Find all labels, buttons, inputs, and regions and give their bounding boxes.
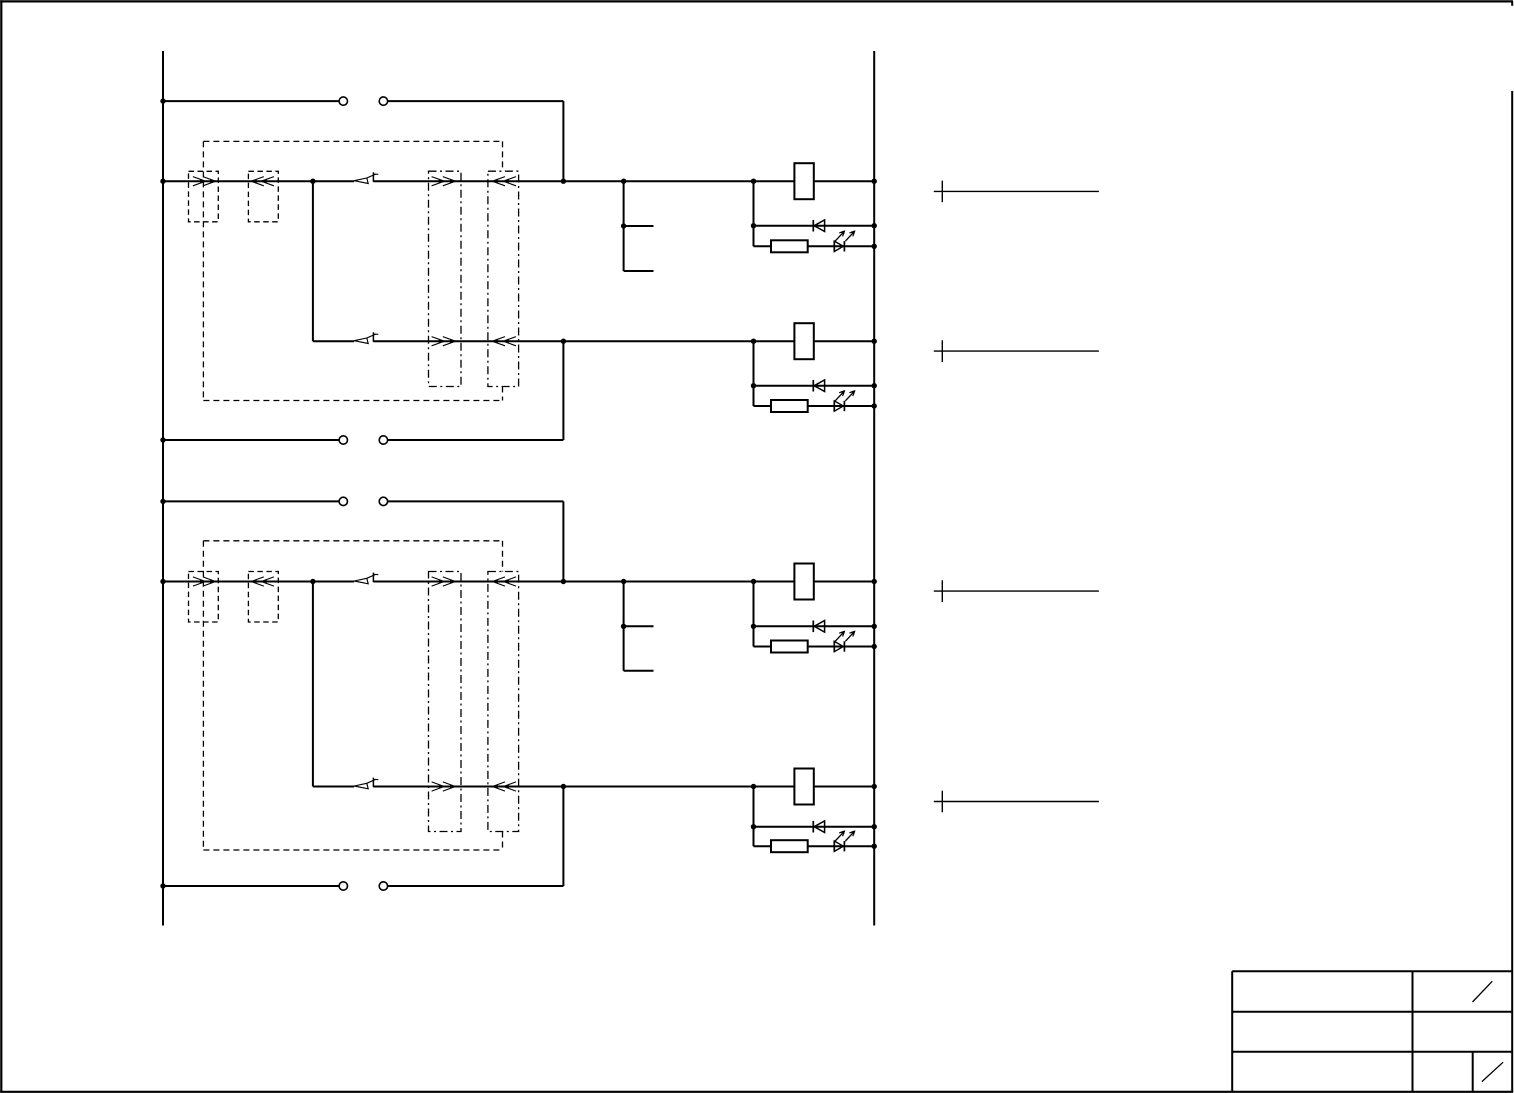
drawing frame border top-right tick bbox=[1511, 1, 1513, 5]
connector pin XP21 contacts bbox=[193, 577, 216, 586]
wire: section 2 second rung (left part) bbox=[313, 786, 354, 788]
wire: K11 branch vertical bbox=[753, 181, 755, 246]
pin contacts XT11 on main rung bbox=[432, 177, 456, 186]
wire: K22 branch vertical bbox=[753, 787, 755, 847]
relay coil K12 bbox=[794, 323, 813, 359]
node: main rung 1 stub junction bbox=[621, 179, 626, 184]
node: second rung 1 relay branch junction bbox=[751, 339, 756, 344]
node: K21 rung at right bus bbox=[872, 579, 877, 584]
switch SA21 right contact circle bbox=[379, 497, 387, 505]
node: main rung 2 stub junction bbox=[621, 579, 626, 584]
wire: resistor row R22 bbox=[754, 845, 875, 847]
node: diode row VD22 at right bus bbox=[872, 824, 877, 829]
wire: section 2 drop from main rung to second rung bbox=[312, 582, 314, 787]
node: main rung 1 drop junction bbox=[310, 179, 315, 184]
wire: K21 branch vertical bbox=[753, 582, 755, 647]
wire: section 2 bottom return right segment bbox=[388, 885, 564, 887]
connector socket XS11 contacts bbox=[251, 177, 274, 186]
switch SA21 left contact circle bbox=[339, 497, 347, 505]
wire: section 1 main rung (left part) bbox=[163, 180, 354, 182]
diode VD11 bbox=[813, 220, 824, 232]
pin contacts XT21 on main rung bbox=[432, 577, 456, 586]
switch SA12 right contact circle bbox=[379, 436, 387, 444]
wire: section 2 drop from top feeder to main rung bbox=[562, 501, 564, 581]
contact K20.1 (make contact) on main rung bbox=[354, 573, 378, 584]
diode VD21 bbox=[813, 621, 824, 633]
bus L+ (left vertical supply rail) bbox=[162, 51, 164, 926]
diode VD22 bbox=[813, 821, 824, 833]
node: main rung 2 at left bus bbox=[160, 579, 165, 584]
wire: section 1 drop from main rung to second rung bbox=[312, 181, 314, 341]
wire: resistor row R21 bbox=[754, 646, 875, 648]
terminal line T21 bbox=[934, 580, 1099, 602]
wire: section 1 from switch SA11 to corner bbox=[388, 100, 564, 102]
node: K11 rung at right bus bbox=[872, 179, 877, 184]
node: top feeder 1 at left bus bbox=[160, 98, 165, 103]
node: bottom return 2 at left bus bbox=[160, 883, 165, 888]
node: diode row VD21 at right bus bbox=[872, 624, 877, 629]
drawing frame border bottom edge bbox=[0, 1091, 1513, 1093]
capacitor-like stub element C1 bbox=[624, 181, 654, 271]
LED HL22 bbox=[834, 841, 844, 851]
capacitor-like stub element C2 bbox=[624, 582, 654, 671]
switch SA22 left contact circle bbox=[339, 882, 347, 890]
bus L- (right vertical supply rail) bbox=[873, 51, 875, 926]
LED HL21 bbox=[834, 641, 844, 651]
node: K11 branch to diode row bbox=[751, 223, 756, 228]
node: K22 rung at right bus bbox=[872, 784, 877, 789]
wire: section 1 drop from second rung to bottom return bbox=[562, 341, 564, 440]
connector column XT12 dash-dot box bbox=[488, 171, 519, 386]
wire: section 1 second rung (left part) bbox=[313, 340, 354, 342]
connector pin XP11 contacts bbox=[193, 177, 216, 186]
node: second rung 1 return junction bbox=[561, 339, 566, 344]
LED HL12 bbox=[834, 401, 844, 411]
node: K21 branch to diode row bbox=[751, 624, 756, 629]
switch SA11 right contact circle bbox=[379, 97, 387, 105]
wire: section 1 bottom return from bus to switch SA12 bbox=[163, 439, 339, 441]
node: K12 rung at right bus bbox=[872, 339, 877, 344]
socket contacts XT22 on second rung bbox=[492, 782, 516, 791]
wire: diode row VD11 bbox=[754, 225, 875, 227]
node: bottom return 1 at left bus bbox=[160, 437, 165, 442]
node: junction C2 tap bbox=[621, 624, 626, 629]
connector column XT22 dash-dot box bbox=[488, 572, 519, 832]
connector assembly X2 dashed boundary bbox=[203, 541, 502, 850]
wire: section 1 bottom return right segment bbox=[388, 439, 564, 441]
resistor R22 bbox=[771, 840, 808, 852]
connector assembly X1 dashed boundary bbox=[203, 141, 502, 400]
LED HL11 radiation arrows bbox=[835, 230, 855, 241]
drawing frame border right edge (starts below gap) bbox=[1511, 91, 1513, 1092]
wire: section 1 top feeder from bus to switch SA11 bbox=[163, 100, 339, 102]
LED HL11 bbox=[834, 241, 844, 251]
switch SA12 left contact circle bbox=[339, 436, 347, 444]
node: resistor row R11 at right bus bbox=[872, 244, 877, 249]
diode VD12 bbox=[813, 380, 824, 392]
node: diode row VD12 at right bus bbox=[872, 383, 877, 388]
node: main rung 1 feeder junction bbox=[561, 179, 566, 184]
pin contacts XT21 on second rung bbox=[432, 782, 456, 791]
connector socket XS21 contacts bbox=[251, 577, 274, 586]
node: main rung 2 relay branch junction bbox=[751, 579, 756, 584]
terminal line T22 bbox=[934, 791, 1099, 813]
switch SA22 right contact circle bbox=[379, 882, 387, 890]
wire: section 2 main rung (left part) bbox=[163, 581, 354, 583]
connector pin XP21 dashed box bbox=[189, 572, 219, 623]
resistor R11 bbox=[771, 240, 808, 252]
wire: diode row VD22 bbox=[754, 826, 875, 828]
node: K22 branch to diode row bbox=[751, 824, 756, 829]
connector socket XS21 dashed box bbox=[248, 572, 278, 623]
connector column XT21 dash-dot box bbox=[429, 572, 462, 832]
socket contacts XT12 on main rung bbox=[492, 177, 516, 186]
wire: section 2 drop from second rung to bottom return bbox=[562, 787, 564, 887]
connector column XT11 dash-dot box bbox=[429, 171, 462, 386]
node: main rung 1 relay branch junction bbox=[751, 179, 756, 184]
node: diode row VD11 at right bus bbox=[872, 223, 877, 228]
node: main rung 2 drop junction bbox=[310, 579, 315, 584]
contact K10.1 (make contact) on main rung bbox=[354, 172, 378, 183]
wire: diode row VD21 bbox=[754, 625, 875, 627]
connector pin XP11 dashed box bbox=[189, 171, 219, 222]
node: main rung 2 feeder junction bbox=[561, 579, 566, 584]
node: resistor row R21 at right bus bbox=[872, 644, 877, 649]
wire: diode row VD12 bbox=[754, 385, 875, 387]
title block slash mark (page field) bbox=[1482, 1062, 1503, 1081]
socket contacts XT12 on second rung bbox=[492, 337, 516, 346]
wire: section 2 bottom return from bus to switch SA22 bbox=[163, 885, 339, 887]
drawing frame border left edge bbox=[0, 0, 2, 1092]
LED HL22 radiation arrows bbox=[835, 830, 855, 841]
relay coil K21 bbox=[794, 564, 813, 600]
node: main rung 1 at left bus bbox=[160, 179, 165, 184]
resistor R21 bbox=[771, 641, 808, 653]
wire: section 1 main rung (right part) bbox=[373, 180, 874, 182]
relay coil K22 bbox=[794, 769, 813, 805]
wire: resistor row R12 bbox=[754, 405, 875, 407]
contact K10.2 (make contact) on second rung bbox=[354, 332, 378, 343]
wire: section 1 drop from top feeder to main rung bbox=[562, 101, 564, 181]
connector socket XS11 dashed box bbox=[248, 171, 278, 222]
wire: section 2 second rung (right part) bbox=[373, 786, 874, 788]
node: second rung 2 return junction bbox=[561, 784, 566, 789]
socket contacts XT22 on main rung bbox=[492, 577, 516, 586]
wire: section 2 from switch SA21 to corner bbox=[388, 500, 564, 502]
wire: section 2 top feeder from bus to switch SA21 bbox=[163, 500, 339, 502]
terminal line T12 bbox=[934, 340, 1099, 362]
resistor R12 bbox=[771, 400, 808, 412]
node: junction C1 tap bbox=[621, 223, 626, 228]
node: resistor row R22 at right bus bbox=[872, 844, 877, 849]
wire: K12 branch vertical bbox=[753, 341, 755, 406]
node: K12 branch to diode row bbox=[751, 383, 756, 388]
contact K20.2 (make contact) on second rung bbox=[354, 778, 378, 789]
switch SA11 left contact circle bbox=[339, 97, 347, 105]
node: resistor row R12 at right bus bbox=[872, 403, 877, 408]
node: second rung 2 relay branch junction bbox=[751, 784, 756, 789]
wire: resistor row R11 bbox=[754, 245, 875, 247]
LED HL12 radiation arrows bbox=[835, 390, 855, 401]
title block frame bbox=[1232, 971, 1512, 1091]
wire: section 1 second rung (right part) bbox=[373, 340, 874, 342]
title block slash mark (sheet field) bbox=[1473, 981, 1493, 1002]
pin contacts XT11 on second rung bbox=[432, 337, 456, 346]
node: top feeder 2 at left bus bbox=[160, 499, 165, 504]
LED HL21 radiation arrows bbox=[835, 631, 855, 642]
wire: section 2 main rung (right part) bbox=[373, 581, 874, 583]
terminal line T11 bbox=[934, 181, 1099, 203]
relay coil K11 bbox=[794, 163, 813, 199]
drawing frame border top edge bbox=[0, 0, 1513, 2]
